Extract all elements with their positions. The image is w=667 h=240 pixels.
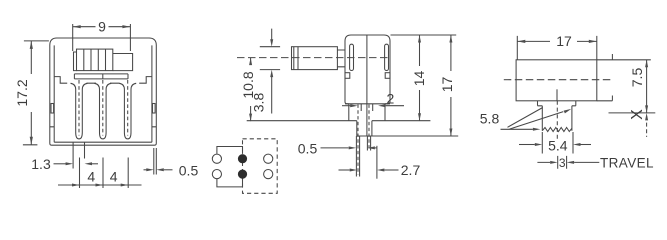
dim 4,4 arrowheads xyxy=(72,184,80,187)
pad bottom bracket xyxy=(217,179,243,187)
svg-text:17.2: 17.2 xyxy=(14,79,30,106)
side bracket stubs xyxy=(597,54,613,101)
dim 3 bars xyxy=(558,156,567,169)
svg-text:3: 3 xyxy=(559,156,566,170)
knob sides (top) xyxy=(542,106,572,131)
svg-text:0.5: 0.5 xyxy=(179,163,199,179)
svg-text:0.5: 0.5 xyxy=(298,141,318,157)
pad dashed outline xyxy=(243,139,278,194)
svg-text:14: 14 xyxy=(411,71,427,87)
dim 3 lines xyxy=(537,161,599,163)
cover right ledge xyxy=(139,77,152,84)
svg-text:1.3: 1.3 xyxy=(31,156,51,172)
shelf reference line (14) xyxy=(372,120,431,122)
pin B (side) xyxy=(367,136,370,151)
dim 0.5 (front legs) extension lines xyxy=(154,148,157,175)
svg-text:2: 2 xyxy=(387,91,395,107)
body center line xyxy=(366,35,368,136)
svg-text:17: 17 xyxy=(556,33,572,49)
svg-text:4: 4 xyxy=(110,169,118,185)
pad hole 4 xyxy=(212,170,221,179)
shaft (actuator side) xyxy=(292,47,338,70)
switch body outline (front) xyxy=(50,38,157,145)
knob flange (top) xyxy=(538,101,576,106)
svg-text:10.8: 10.8 xyxy=(240,71,256,98)
dim 2 arrows xyxy=(342,105,351,107)
X reference line xyxy=(609,112,656,114)
base reference line (left) xyxy=(247,120,357,122)
dim 17.2 ticks xyxy=(23,41,49,145)
wall leg ticks xyxy=(50,126,157,128)
top reference line (right) xyxy=(391,34,457,36)
knob right step xyxy=(113,54,133,71)
cover band xyxy=(74,74,128,79)
dim 17.2 line xyxy=(30,41,32,145)
svg-text:4: 4 xyxy=(87,169,95,185)
dim 9 arrowheads xyxy=(73,25,81,28)
switch body outline (side) xyxy=(345,35,390,104)
dim 17 line (middle view) xyxy=(450,35,452,136)
dim 5.8 arrow xyxy=(501,128,533,130)
pad hole 5 (filled) xyxy=(238,170,247,179)
pad hole 6 xyxy=(264,170,273,179)
dim 17.2 arrowheads xyxy=(30,41,33,49)
dim 17 extension lines (top view) xyxy=(517,36,597,60)
pin 1 (front) xyxy=(71,83,88,139)
pad hole 1 xyxy=(212,154,221,163)
pad top bracket xyxy=(217,147,243,154)
body inner bottom line xyxy=(54,141,152,143)
svg-text:5.8: 5.8 xyxy=(480,110,500,126)
svg-text:X: X xyxy=(629,109,646,120)
dim 0.5 arrows xyxy=(144,169,147,171)
dim 3.8 extension lines xyxy=(260,47,280,70)
cover mid ledges xyxy=(87,82,120,84)
stem (side) xyxy=(357,121,372,136)
pin 2 (front) xyxy=(94,83,111,139)
pin pitch extension lines xyxy=(80,158,129,189)
dim 5.4 arrows xyxy=(519,144,535,146)
svg-text:17: 17 xyxy=(439,77,455,93)
knob break zigzag xyxy=(542,128,572,132)
svg-text:TRAVEL: TRAVEL xyxy=(600,155,654,170)
dim 7.5 line xyxy=(646,60,648,113)
svg-text:9: 9 xyxy=(98,19,106,35)
stem bottom / reference line 17 xyxy=(357,135,458,137)
body side tab holes xyxy=(345,73,350,79)
dim 1.3 right arrow xyxy=(91,163,98,165)
svg-text:7.5: 7.5 xyxy=(629,68,645,88)
dim 2.7 left arrow xyxy=(339,169,350,171)
wall side holes xyxy=(51,104,54,114)
pin 3 (front) xyxy=(119,83,136,139)
dim 9 line xyxy=(73,26,131,28)
knob left step xyxy=(74,52,77,71)
shaft neck xyxy=(337,50,345,67)
dim 3.8 arrows xyxy=(271,29,273,114)
pin A (side) xyxy=(356,136,359,177)
pin channels xyxy=(361,104,373,111)
body side slots xyxy=(350,44,354,70)
top reference line (7.5) xyxy=(597,59,651,61)
X dim tail xyxy=(646,116,648,137)
dim 5.8 leader lines xyxy=(508,108,543,128)
dim 9 extension lines xyxy=(73,24,131,51)
shaft centerline xyxy=(237,57,388,59)
shaft cap lines xyxy=(294,47,298,70)
pad hole 3 xyxy=(264,154,273,163)
dim 4,4 line xyxy=(58,184,142,186)
dim 1.3 extension lines xyxy=(73,142,84,168)
step flange (side) xyxy=(345,104,390,121)
svg-text:5.4: 5.4 xyxy=(548,137,568,153)
svg-text:2.7: 2.7 xyxy=(401,162,421,178)
dim 1.3 leader left xyxy=(54,163,67,165)
dim 14 line xyxy=(419,35,421,121)
dim 17 line (top view) xyxy=(517,40,597,42)
pad hole 2 (filled) xyxy=(238,154,247,163)
cover left ledge xyxy=(54,77,67,84)
body inner side walls xyxy=(54,45,152,142)
dim 2.7 extension line xyxy=(376,146,378,179)
body center mark xyxy=(556,89,558,101)
dim 10.8 line xyxy=(250,58,252,122)
dim 2.7 right arrow xyxy=(384,169,398,171)
knob (hatched actuator) xyxy=(77,49,113,71)
dim 5.4 extension lines xyxy=(542,132,573,154)
switch body outline (top) xyxy=(516,60,597,101)
body centerline (top) xyxy=(504,79,611,81)
dim 0.5 (side pin) leader xyxy=(321,147,349,149)
